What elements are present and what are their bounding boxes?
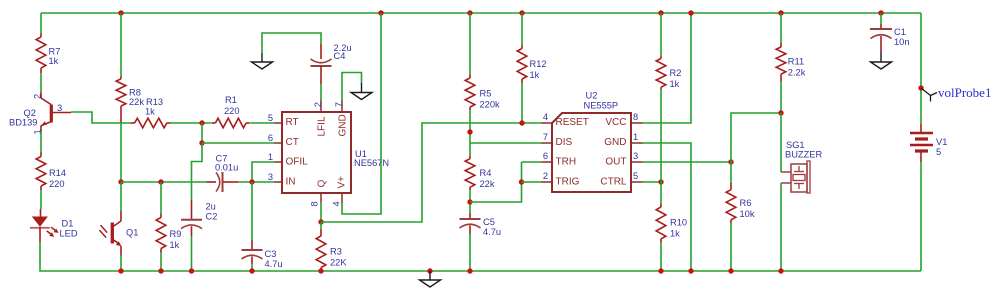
svg-text:1k: 1k [670, 79, 680, 89]
svg-text:BUZZER: BUZZER [785, 150, 822, 160]
svg-text:Q2: Q2 [24, 108, 36, 118]
svg-text:1: 1 [268, 152, 273, 162]
junction [199, 120, 204, 125]
svg-text:OUT: OUT [605, 157, 626, 168]
svg-text:C3: C3 [265, 249, 277, 259]
svg-text:4.7u: 4.7u [265, 259, 283, 269]
junction [519, 120, 524, 125]
svg-text:CT: CT [286, 137, 299, 148]
svg-text:R11: R11 [788, 57, 804, 67]
LED D1 [30, 209, 78, 242]
wire [170, 122, 212, 124]
svg-text:R10: R10 [670, 218, 687, 228]
junction [778, 268, 783, 273]
wire [250, 122, 275, 124]
junction [519, 10, 524, 15]
svg-text:RESET: RESET [556, 117, 589, 128]
wire [40, 190, 42, 209]
wire [522, 181, 542, 183]
svg-text:volProbe1: volProbe1 [938, 85, 991, 100]
svg-text:SG1: SG1 [786, 140, 805, 150]
transistor Q2 BD139 [9, 92, 71, 131]
wire [469, 110, 471, 156]
wire [342, 73, 362, 101]
junction [688, 268, 693, 273]
capacitor C7 [207, 154, 239, 193]
capacitor C4 [311, 43, 352, 84]
wire [40, 131, 42, 153]
resistor R5 [465, 75, 500, 111]
resistor R10 [656, 204, 687, 242]
svg-text:GND: GND [338, 114, 349, 136]
capacitor C2 [181, 200, 217, 236]
svg-text:8: 8 [633, 112, 638, 122]
svg-text:R3: R3 [330, 247, 342, 257]
wire bottom ground rail [41, 270, 921, 272]
wire [660, 243, 662, 272]
resistor R13 [131, 97, 170, 128]
junction [318, 268, 323, 273]
wire [40, 242, 41, 272]
svg-text:V1: V1 [936, 137, 947, 147]
junction [467, 10, 472, 15]
svg-text:1k: 1k [145, 107, 155, 117]
wire [342, 13, 381, 214]
junction [778, 110, 783, 115]
capacitor C3 [242, 240, 283, 269]
svg-text:NE555P: NE555P [584, 101, 619, 111]
wire [470, 162, 522, 202]
svg-text:2u: 2u [206, 202, 216, 212]
wire top VCC rail [41, 12, 921, 14]
junction [467, 199, 472, 204]
wire [920, 162, 922, 271]
svg-text:2: 2 [313, 102, 323, 107]
resistor R14 [36, 152, 66, 190]
svg-text:RT: RT [286, 117, 299, 128]
svg-text:22k: 22k [129, 97, 144, 107]
svg-text:D1: D1 [62, 219, 74, 229]
svg-text:CTRL: CTRL [600, 177, 627, 188]
svg-text:OFIL: OFIL [286, 157, 309, 168]
wire [469, 190, 471, 213]
resistor R12 [517, 45, 546, 84]
wire [160, 182, 162, 214]
svg-text:Q: Q [317, 180, 328, 188]
svg-text:Q1: Q1 [126, 228, 138, 238]
junction [118, 179, 123, 184]
svg-text:R13: R13 [146, 97, 163, 107]
wire [469, 234, 471, 271]
wire [262, 33, 321, 53]
wire [120, 13, 122, 77]
svg-text:LFIL: LFIL [317, 116, 328, 136]
wire [643, 181, 661, 183]
voltage probe volProbe1 [921, 85, 991, 102]
svg-text:3: 3 [57, 103, 62, 113]
svg-text:220: 220 [224, 106, 240, 116]
ground [420, 271, 441, 287]
wire [521, 83, 523, 123]
wire [660, 90, 662, 182]
svg-text:R9: R9 [170, 229, 182, 239]
junction [878, 10, 883, 15]
wire [643, 161, 731, 163]
svg-text:R2: R2 [670, 68, 682, 78]
wire [470, 142, 541, 144]
svg-text:TRIG: TRIG [556, 177, 580, 188]
svg-text:22k: 22k [480, 179, 495, 189]
wire [40, 13, 42, 34]
svg-text:220: 220 [49, 179, 65, 189]
wire [320, 84, 322, 100]
junction [118, 10, 123, 15]
wire [522, 161, 542, 163]
svg-text:1k: 1k [670, 229, 680, 239]
wire [521, 13, 523, 45]
svg-text:8: 8 [310, 201, 320, 206]
junction [467, 129, 472, 134]
wire [643, 143, 691, 271]
svg-text:5: 5 [633, 171, 638, 181]
wire [660, 182, 662, 205]
wire [780, 183, 782, 271]
wire [191, 236, 193, 271]
svg-text:DIS: DIS [556, 137, 573, 148]
svg-text:0.01u: 0.01u [215, 163, 238, 173]
svg-text:2.2k: 2.2k [788, 68, 806, 78]
wire [920, 13, 922, 124]
svg-text:U2: U2 [586, 91, 598, 101]
resistor R1 [212, 95, 250, 128]
svg-text:1k: 1k [49, 56, 59, 66]
resistor R9 [156, 214, 181, 253]
svg-text:4: 4 [332, 201, 342, 206]
svg-text:LED: LED [60, 229, 78, 239]
wire [121, 181, 207, 183]
svg-text:10n: 10n [894, 37, 910, 47]
wire [880, 13, 882, 24]
junction [688, 10, 693, 15]
svg-text:4: 4 [543, 112, 548, 122]
junction [318, 219, 323, 224]
junction [199, 140, 204, 145]
phototransistor Q1 [99, 212, 138, 256]
svg-text:7: 7 [334, 102, 344, 107]
resistor R2 [656, 56, 681, 90]
resistor R7 [36, 34, 60, 74]
svg-text:VCC: VCC [605, 117, 626, 128]
wire [321, 123, 541, 222]
wire [251, 264, 253, 271]
svg-text:BD139: BD139 [9, 118, 37, 128]
resistor R3 [316, 230, 347, 272]
wire [780, 13, 782, 44]
svg-text:220k: 220k [480, 100, 501, 110]
node volProbe1 junction [918, 85, 923, 90]
wire [320, 222, 322, 230]
svg-text:1: 1 [633, 132, 638, 142]
svg-text:R6: R6 [740, 198, 752, 208]
svg-text:2: 2 [543, 171, 548, 181]
junction [249, 268, 254, 273]
svg-text:5: 5 [936, 147, 941, 157]
svg-text:TRH: TRH [556, 157, 577, 168]
junction [158, 268, 163, 273]
svg-text:IN: IN [286, 177, 296, 188]
svg-text:C1: C1 [894, 27, 906, 37]
capacitor C5 [460, 213, 502, 237]
wire [643, 13, 691, 123]
wire [120, 123, 122, 182]
svg-text:5: 5 [268, 113, 273, 123]
wire [71, 112, 131, 123]
resistor R11 [776, 43, 806, 81]
wire [780, 81, 782, 113]
junction [189, 268, 194, 273]
svg-text:R12: R12 [530, 59, 547, 69]
resistor R4 [465, 156, 495, 190]
wire [660, 13, 662, 56]
svg-text:C4: C4 [334, 51, 346, 61]
ground [351, 83, 372, 100]
buzzer SG1 [781, 140, 822, 193]
svg-text:GND: GND [604, 137, 626, 148]
junction [467, 268, 472, 273]
wire [238, 181, 275, 183]
svg-text:4.7u: 4.7u [483, 227, 501, 237]
wire [730, 223, 732, 271]
junction [658, 10, 663, 15]
wire [160, 253, 162, 272]
junction [658, 268, 663, 273]
junction [378, 10, 383, 15]
wire [251, 182, 253, 240]
svg-text:6: 6 [268, 133, 273, 143]
wire [202, 142, 275, 144]
junction [728, 268, 733, 273]
svg-text:2: 2 [32, 94, 42, 99]
svg-text:R1: R1 [225, 95, 237, 105]
wire [469, 13, 471, 75]
junction [519, 179, 524, 184]
op-amp U1 NE567N tone decoder [275, 100, 390, 203]
svg-text:3: 3 [268, 172, 273, 182]
svg-text:R7: R7 [49, 47, 61, 57]
wire [192, 143, 203, 200]
svg-text:NE567N: NE567N [354, 158, 389, 168]
wire [40, 73, 42, 92]
wire [780, 113, 782, 172]
svg-text:22K: 22K [330, 258, 347, 268]
svg-text:R8: R8 [129, 88, 141, 98]
wire [120, 256, 122, 272]
svg-text:6: 6 [543, 151, 548, 161]
junction [427, 268, 432, 273]
wire [252, 162, 275, 182]
junction [158, 179, 163, 184]
wire [120, 182, 122, 212]
svg-text:1k: 1k [530, 70, 540, 80]
svg-text:R4: R4 [480, 168, 492, 178]
wire [320, 203, 322, 222]
resistor R8 [116, 76, 144, 123]
svg-text:1k: 1k [170, 240, 180, 250]
svg-text:C2: C2 [206, 212, 218, 222]
junction [118, 268, 123, 273]
junction [249, 179, 254, 184]
wire [730, 162, 732, 184]
svg-text:10k: 10k [740, 209, 755, 219]
svg-text:R14: R14 [49, 168, 66, 178]
ground [252, 53, 273, 69]
svg-text:V+: V+ [337, 176, 348, 189]
svg-text:R5: R5 [480, 89, 492, 99]
ground [871, 52, 892, 69]
wire [731, 113, 781, 162]
svg-text:C5: C5 [483, 217, 495, 227]
junction [778, 10, 783, 15]
wire [201, 123, 203, 143]
junction [658, 179, 663, 184]
svg-text:3: 3 [633, 151, 638, 161]
junction [728, 159, 733, 164]
resistor R6 [726, 183, 755, 223]
capacitor C1 [870, 24, 910, 52]
battery V1 [910, 124, 947, 162]
svg-text:7: 7 [543, 132, 548, 142]
op-amp U2 NE555P timer [541, 91, 643, 193]
